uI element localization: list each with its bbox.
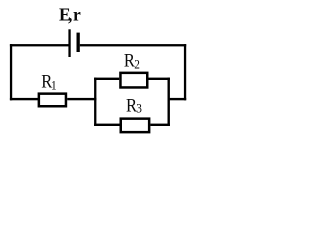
wire bottom-right connector from parallel block to right vertical [168,98,187,100]
svg-text:3: 3 [136,101,142,116]
label R3 [126,94,142,115]
svg-text:1: 1 [51,78,57,93]
svg-text:r: r [73,5,81,25]
wire top-left from left vertical to battery [10,44,69,46]
parallel block right vertical wire [168,78,170,126]
resistor R2 box [120,73,147,88]
wire R3 branch right [150,124,170,126]
wire left outer vertical [10,44,12,100]
label R2 [124,50,140,72]
resistor R1 box [39,94,66,107]
wire R3 branch left [94,124,119,126]
wire R2 branch left [94,78,119,80]
svg-text:,: , [68,5,72,25]
battery E,r right plate (short thick) [77,33,80,52]
svg-text:2: 2 [134,57,140,72]
svg-text:R: R [124,50,135,71]
resistor R3 box [121,119,149,132]
wire R2 branch right to top corner of right vertical [149,78,170,80]
parallel block left vertical wire [94,78,96,126]
battery E,r left plate (long thin) [68,29,70,57]
wire top-right from battery to right corner [80,44,186,46]
wire right outer vertical [184,44,186,100]
label R1 [41,71,56,93]
wire from R1 to parallel block left vertical [67,98,96,100]
wire bottom-left from left vertical to R1 [10,98,39,100]
